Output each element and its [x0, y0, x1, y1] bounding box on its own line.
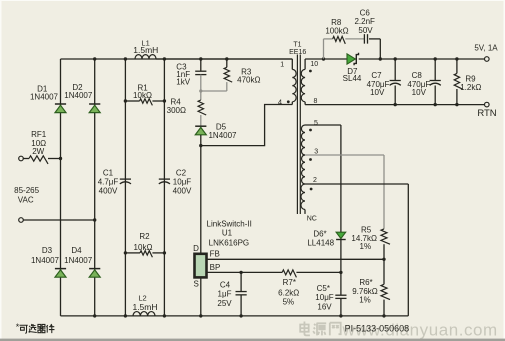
fusible resistor RF1 10ohm 2W — [23, 130, 60, 164]
wire pin5 to D6 — [305, 125, 341, 232]
junction output / R9 — [455, 57, 458, 60]
svg-text:400V: 400V — [173, 187, 192, 196]
svg-text:2: 2 — [313, 177, 317, 184]
junction RF1 / D1-D3 rail — [59, 157, 62, 160]
input terminal neutral — [19, 218, 24, 223]
junction R6 / bottom bus — [382, 314, 385, 317]
svg-text:1N4007: 1N4007 — [64, 91, 93, 100]
watermark dianyuan.com — [300, 321, 498, 340]
label LNK616PG — [209, 239, 249, 248]
capacitor C5* 10uF 16V — [315, 272, 346, 316]
junction RTN / C8 — [434, 103, 437, 106]
transformer bias winding pin3-pin2 — [302, 155, 305, 184]
pin label 1 — [280, 62, 284, 69]
pin label D — [193, 244, 199, 253]
svg-text:RTN: RTN — [477, 108, 496, 119]
junction pin10/snubber/D7 — [322, 57, 325, 60]
phase dot secondary — [309, 70, 312, 73]
wire C1 rail — [124, 59, 126, 316]
resistor R9 1.2k — [454, 59, 481, 105]
junction R2 left — [124, 251, 127, 254]
svg-text:5: 5 — [314, 120, 318, 127]
transformer primary winding pin1-pin4 — [292, 59, 296, 105]
junction FB divider — [382, 258, 385, 261]
wire pin10 to output junction — [305, 58, 323, 60]
svg-text:1kV: 1kV — [176, 78, 190, 87]
svg-text:D4: D4 — [71, 246, 82, 255]
wire left rail D1-D3 — [60, 59, 62, 316]
svg-text:R6*: R6* — [359, 278, 372, 287]
junction source / bottom bus — [199, 314, 202, 317]
svg-text:5%: 5% — [283, 298, 295, 307]
svg-text:6.2kΩ: 6.2kΩ — [278, 288, 299, 297]
note optional components — [16, 322, 55, 333]
diode D4 1N4007 — [64, 246, 100, 277]
pin label 2 — [313, 177, 317, 184]
pin label 10 — [310, 61, 318, 68]
phase dot primary — [287, 100, 290, 103]
resistor R8 100k — [325, 18, 348, 44]
input terminal line — [19, 156, 24, 161]
svg-text:S: S — [194, 280, 199, 289]
svg-text:85-265: 85-265 — [14, 186, 39, 195]
svg-text:4.7μF: 4.7μF — [98, 178, 119, 187]
svg-text:10kΩ: 10kΩ — [133, 91, 152, 100]
inductor L2 — [132, 294, 157, 316]
pin label 5 — [314, 120, 318, 127]
label NC — [307, 216, 317, 223]
svg-text:SL44: SL44 — [343, 74, 362, 83]
wire top bus from L1 to transformer pin 1 — [156, 58, 292, 60]
wire D6 to BP node — [340, 240, 342, 272]
output terminal RTN — [477, 102, 496, 119]
label PI-5133-050608 — [345, 323, 410, 333]
pin label FB — [210, 250, 220, 259]
wire pin3 to R5 gray — [305, 155, 384, 229]
phase dot bias mid — [309, 158, 312, 161]
wire D5 to drain node — [200, 135, 202, 146]
svg-text:LL4148: LL4148 — [307, 239, 334, 248]
svg-text:1%: 1% — [360, 242, 372, 251]
pin label 8 — [314, 98, 318, 105]
diode D2 1N4007 — [64, 83, 100, 113]
wire RTN — [305, 104, 484, 106]
wire R8 to C6 gray — [345, 38, 364, 40]
svg-text:PI-5133-050608: PI-5133-050608 — [345, 323, 410, 333]
wire FB to divider — [207, 258, 384, 260]
capacitor C3 1nF 1kV — [176, 62, 206, 86]
phase dot bias low — [310, 188, 313, 191]
svg-text:C1: C1 — [103, 169, 114, 178]
svg-text:400V: 400V — [99, 187, 118, 196]
wire drain node to U1 drain — [200, 146, 202, 254]
wire C6 to output — [369, 39, 380, 59]
svg-text:1%: 1% — [359, 296, 371, 305]
label U1 — [222, 229, 233, 238]
diode D3 1N4007 — [31, 246, 66, 277]
wire pin2 to bottom bus corner — [305, 184, 408, 316]
svg-text:T1: T1 — [293, 42, 301, 49]
junction clamp gray — [199, 89, 202, 92]
transformer core — [297, 55, 300, 215]
svg-text:BP: BP — [210, 263, 221, 272]
wire snubber top gray — [324, 38, 333, 40]
diode D1 1N4007 — [30, 85, 66, 113]
svg-text:FB: FB — [210, 250, 220, 259]
wire clamp rail top — [200, 59, 202, 71]
svg-text:5V, 1A: 5V, 1A — [474, 44, 498, 53]
resistor R7* 6.2k 5% — [278, 270, 299, 307]
svg-text:1N4007: 1N4007 — [31, 256, 60, 265]
capacitor C8 470uF 10V — [407, 59, 440, 105]
svg-text:D6*: D6* — [313, 230, 326, 239]
svg-text:1N4007: 1N4007 — [30, 93, 59, 102]
svg-text:10μF: 10μF — [173, 178, 192, 187]
wire bottom bus left — [61, 315, 409, 317]
wire clamp cross link gray — [201, 90, 227, 92]
junction RTN / C7 — [394, 103, 397, 106]
resistor R6* 9.76k 1% — [352, 259, 390, 316]
svg-text:2W: 2W — [32, 147, 44, 156]
svg-text:VAC: VAC — [18, 196, 34, 205]
wire BP to C4 — [207, 271, 283, 273]
junction R1 left — [124, 99, 127, 102]
svg-text:10μF: 10μF — [315, 293, 334, 302]
transformer T1 labels — [289, 42, 306, 57]
label 85-265 VAC — [14, 186, 39, 205]
svg-text:16V: 16V — [317, 303, 332, 312]
svg-text:1N4007: 1N4007 — [64, 256, 93, 265]
junction top bus / C1 rail — [124, 57, 127, 60]
resistor R4 300ohm — [167, 98, 207, 116]
phase dot bias top — [309, 129, 312, 132]
wire neutral to D2-D4 rail — [23, 219, 94, 221]
svg-text:R7*: R7* — [283, 278, 296, 287]
svg-text:1μF: 1μF — [218, 289, 232, 298]
diode D7 SL44 schottky — [343, 53, 362, 83]
capacitor C2 10uF 400V — [159, 169, 192, 196]
junction output / C8 — [434, 57, 437, 60]
pin label 4 — [278, 98, 282, 107]
wire C2 rail — [163, 59, 165, 316]
junction top bus / D2 rail — [93, 57, 96, 60]
pin label BP — [210, 263, 221, 272]
junction bottom bus / C2 rail — [163, 314, 166, 317]
junction bottom bus / C1 rail — [124, 314, 127, 317]
svg-text:C4: C4 — [220, 281, 231, 290]
svg-text:LinkSwitch-II: LinkSwitch-II — [207, 220, 252, 229]
junction top bus / R3 rail — [225, 57, 228, 60]
svg-text:RF1: RF1 — [31, 130, 47, 139]
svg-text:1.5mH: 1.5mH — [132, 302, 157, 312]
wire U1 source to bottom bus — [200, 278, 202, 316]
junction top bus / C2 rail — [163, 57, 166, 60]
svg-text:50V: 50V — [358, 26, 373, 35]
resistor R3 470k — [224, 59, 260, 91]
transformer bias winding pin5-pin3 — [301, 125, 305, 155]
junction output / C7 — [394, 57, 397, 60]
wire top bus from bridge to L1 — [61, 58, 293, 60]
wire rail D2-D4 — [94, 59, 96, 316]
pin label S — [194, 280, 199, 289]
resistor R1 10k — [125, 84, 164, 106]
svg-text:1.2kΩ: 1.2kΩ — [460, 83, 481, 92]
wire C3 to R4 gray — [200, 75, 202, 100]
junction snubber return — [379, 57, 382, 60]
svg-text:10V: 10V — [370, 88, 385, 97]
junction drain node — [199, 144, 202, 147]
svg-text:1.5mH: 1.5mH — [133, 45, 158, 55]
svg-text:1: 1 — [280, 62, 284, 69]
wire snubber up gray — [323, 39, 325, 59]
svg-text:D: D — [193, 244, 199, 253]
junction C5 / bottom bus — [339, 314, 342, 317]
junction bottom bus / D2-D4 rail — [93, 314, 96, 317]
svg-text:LNK616PG: LNK616PG — [209, 239, 249, 248]
svg-text:470kΩ: 470kΩ — [237, 75, 260, 84]
wire D7 to output terminal — [359, 58, 485, 60]
svg-text:D3: D3 — [42, 246, 53, 255]
junction R1 right — [163, 99, 166, 102]
capacitor C6 2.2nF 50V — [354, 9, 375, 44]
diode D6* LL4148 — [307, 230, 345, 248]
output terminal 5V — [474, 44, 498, 62]
svg-text:R8: R8 — [331, 18, 342, 27]
capacitor C7 470uF 10V — [367, 59, 401, 105]
svg-text:2.2nF: 2.2nF — [354, 17, 375, 26]
svg-text:25V: 25V — [217, 299, 232, 308]
transformer bias winding pin2-NC — [301, 184, 305, 214]
svg-text:10V: 10V — [412, 88, 427, 97]
inductor L1 — [133, 39, 158, 60]
wire transformer pin4 to drain node — [201, 105, 292, 146]
wire junction to D7 — [324, 58, 348, 60]
pin label 3 — [314, 149, 318, 156]
svg-text:4: 4 — [278, 98, 282, 107]
junction BP bias node — [339, 271, 342, 274]
capacitor C4 1uF 25V — [217, 272, 246, 316]
junction top bus / clamp rail — [199, 57, 202, 60]
svg-text:C5*: C5* — [317, 284, 330, 293]
svg-text:300Ω: 300Ω — [167, 106, 186, 115]
svg-text:*: * — [16, 322, 20, 332]
svg-text:10kΩ: 10kΩ — [134, 243, 153, 252]
svg-text:C6: C6 — [360, 9, 371, 18]
junction BP / C4 — [239, 271, 242, 274]
svg-text:100kΩ: 100kΩ — [325, 27, 348, 36]
junction neutral / D2-D4 rail — [93, 218, 96, 221]
junction RTN / R9 — [455, 103, 458, 106]
junction C4 / bottom bus — [239, 314, 242, 317]
svg-text:1N4007: 1N4007 — [208, 131, 237, 140]
resistor R2 10k — [125, 232, 164, 257]
wire R4 to D5 gray — [200, 115, 202, 126]
label LinkSwitch-II — [207, 220, 252, 229]
transformer secondary winding pin10-pin8 — [301, 59, 305, 105]
resistor R5 14.7k 1% — [351, 226, 390, 260]
svg-text:10: 10 — [310, 61, 318, 68]
ic U1 LNK616PG body — [195, 254, 207, 278]
svg-text:U1: U1 — [222, 229, 233, 238]
svg-text:R2: R2 — [139, 232, 150, 241]
wire R7 to bias node — [296, 271, 341, 273]
svg-text:NC: NC — [307, 216, 317, 223]
capacitor C1 4.7uF 400V — [98, 169, 131, 196]
svg-text:C2: C2 — [176, 169, 187, 178]
junction R2 right — [163, 251, 166, 254]
diode D5 1N4007 — [195, 123, 237, 140]
